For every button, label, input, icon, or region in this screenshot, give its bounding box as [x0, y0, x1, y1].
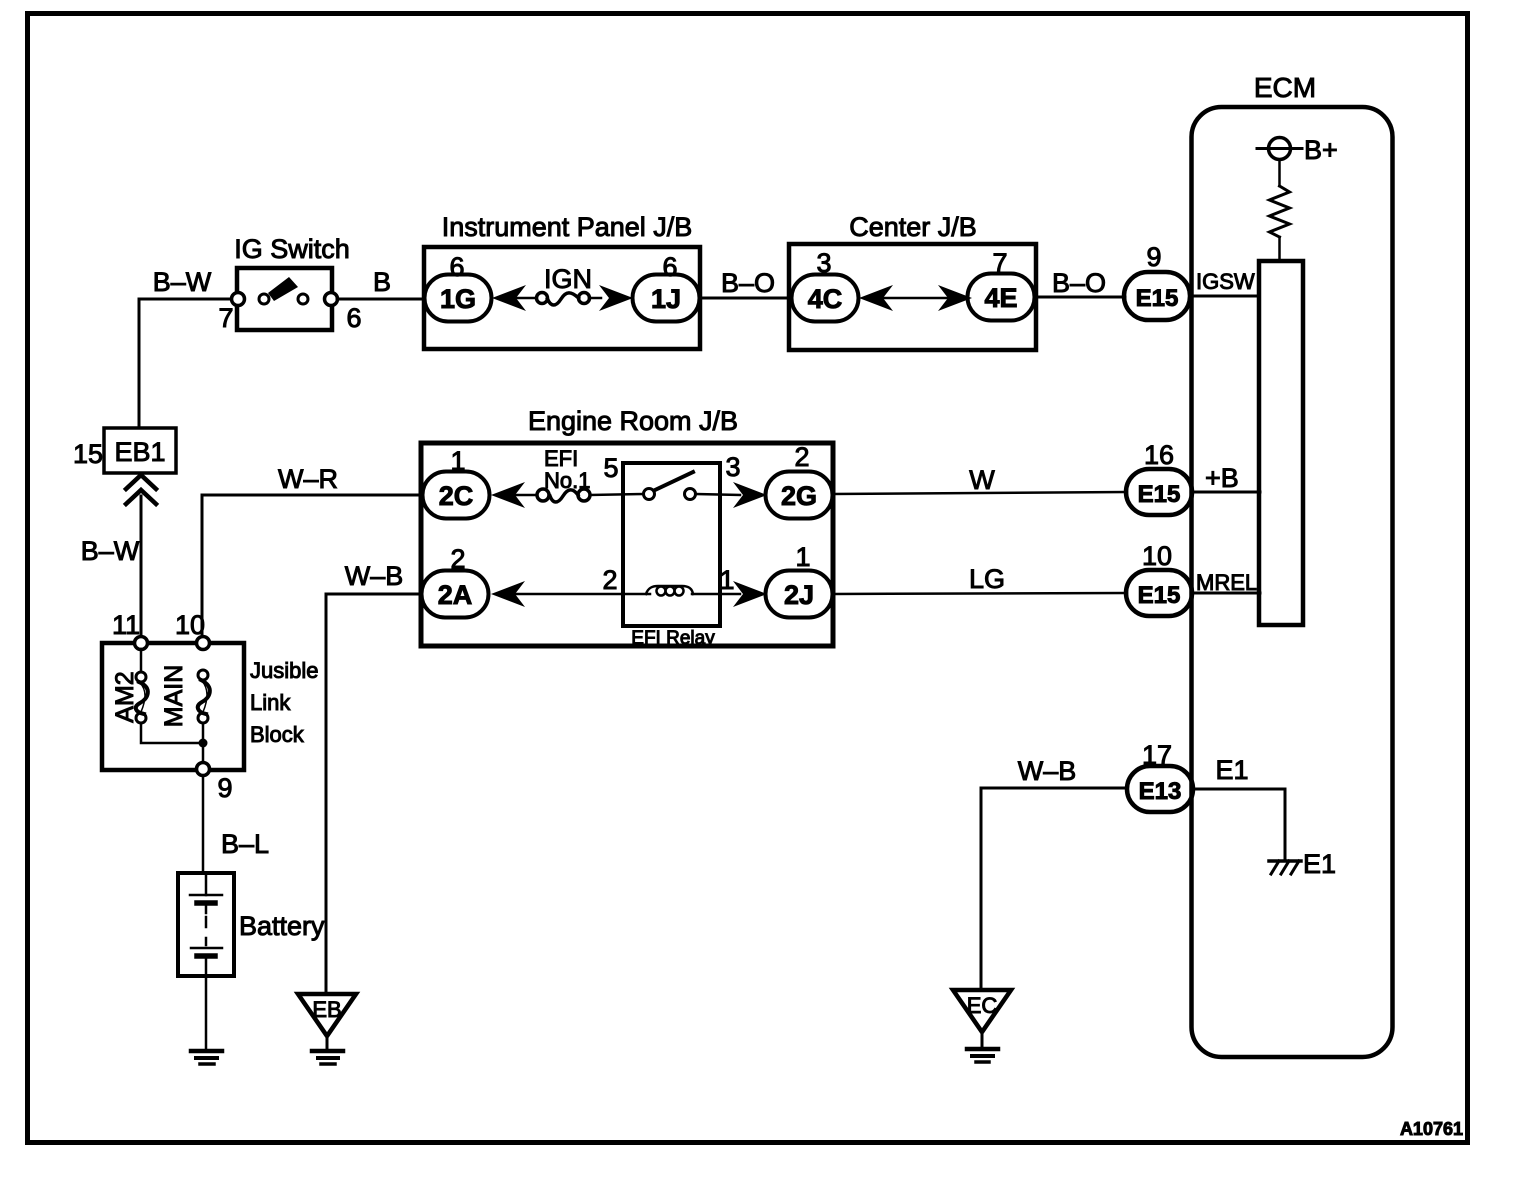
wire 2A to relay coil [515, 593, 650, 596]
svg-text:E15: E15 [1138, 582, 1181, 609]
net label LG [969, 564, 1005, 594]
net label B-W lower [81, 536, 140, 566]
net label W-B left [345, 561, 404, 591]
svg-text:2G: 2G [781, 481, 817, 511]
pin 10 label [175, 610, 205, 640]
svg-text:A10761: A10761 [1400, 1119, 1463, 1139]
pin 15 of EB1 [73, 439, 103, 469]
svg-text:10: 10 [1142, 541, 1172, 571]
svg-text:2: 2 [450, 544, 465, 574]
net label W [969, 465, 995, 495]
connector E15 pin 9 IGSW [1124, 272, 1190, 320]
svg-text:Jusible: Jusible [250, 658, 318, 683]
wire W-B from EC ground to E13 [981, 788, 1127, 990]
svg-text:1G: 1G [440, 284, 476, 314]
svg-text:B–W: B–W [81, 536, 140, 566]
resistor pull-up inside ECM [1270, 186, 1290, 237]
svg-text:AM2: AM2 [111, 671, 139, 722]
wire MAIN to terminal 9 [202, 723, 205, 763]
svg-text:B–L: B–L [221, 829, 269, 859]
relay EFI Relay box [623, 463, 720, 626]
wire resistor to internal bar [1278, 237, 1281, 261]
fuse EFI No.1 [537, 489, 590, 502]
net label W-R [278, 464, 338, 494]
net label B-W [153, 267, 212, 297]
svg-text:2: 2 [794, 442, 809, 472]
net label B [373, 267, 391, 297]
pin 3 of EFI relay [725, 452, 740, 482]
arrow into 2C [491, 482, 525, 508]
svg-text:E1: E1 [1215, 755, 1248, 785]
fuse IGN [537, 293, 590, 306]
wire B-W from Jusible Link Block pin 11 to EB1 [140, 496, 143, 637]
svg-text:3: 3 [725, 452, 740, 482]
label AM2 rotated [111, 671, 139, 722]
svg-text:W–B: W–B [1018, 756, 1077, 786]
terminal 10 [197, 637, 210, 650]
svg-text:Instrument Panel J/B: Instrument Panel J/B [442, 212, 693, 242]
pin 9 label [217, 773, 232, 803]
net label W-B right [1018, 756, 1077, 786]
wire 2C to fuse EFI No.1 [515, 494, 537, 497]
connector chevrons under EB1 [126, 475, 156, 504]
net label B-O second [1052, 268, 1106, 298]
pin 17 of E13 [1142, 740, 1172, 770]
net label B-O [721, 268, 775, 298]
svg-text:2J: 2J [784, 580, 814, 610]
node label E1 [1215, 755, 1248, 785]
fusible link AM2 [136, 672, 148, 723]
svg-text:Block: Block [250, 722, 305, 747]
switch IG Switch [232, 268, 338, 330]
svg-text:2A: 2A [438, 580, 473, 610]
pin 6 of 1J [662, 252, 677, 282]
svg-text:MAIN: MAIN [160, 665, 188, 728]
arrow into 1J [599, 285, 633, 311]
svg-text:W–B: W–B [345, 561, 404, 591]
svg-text:+B: +B [1205, 463, 1239, 493]
wire B-L from terminal 9 to battery [202, 776, 205, 873]
svg-text:Link: Link [250, 690, 291, 715]
pin 11 label [112, 610, 140, 640]
ECM module outline [1192, 107, 1393, 1057]
label ECM [1254, 72, 1316, 103]
power node B+ [1257, 138, 1302, 160]
wire fuse to relay contact [590, 494, 644, 495]
wire B-W from IG switch pin 7 to EB1 [139, 299, 238, 428]
svg-text:B: B [373, 267, 391, 297]
svg-text:7: 7 [218, 303, 233, 333]
svg-text:IG Switch: IG Switch [234, 234, 350, 264]
junction block Engine Room J/B [421, 443, 833, 646]
arrow into 2G [733, 482, 767, 508]
svg-text:2: 2 [602, 565, 617, 595]
connector EB1 [104, 428, 176, 473]
wire W from 2G to E15 +B [832, 492, 1127, 494]
svg-text:6: 6 [662, 252, 677, 282]
connector 1G [425, 275, 492, 322]
wire B from IG switch pin 6 to 1G [337, 298, 425, 301]
connector 1J [633, 275, 700, 322]
svg-text:E15: E15 [1138, 481, 1181, 508]
svg-text:W: W [969, 465, 995, 495]
svg-text:ECM: ECM [1254, 72, 1316, 103]
svg-text:7: 7 [992, 248, 1007, 278]
svg-text:2C: 2C [439, 481, 474, 511]
pin 6 of 1G [449, 252, 464, 282]
wire 4C to 4E [884, 297, 947, 300]
pin 1 of 2J [795, 542, 810, 572]
svg-text:B+: B+ [1304, 135, 1338, 165]
svg-text:9: 9 [217, 773, 232, 803]
wire LG from 2J to E15 MREL [833, 593, 1127, 594]
wire AM2 to junction [141, 723, 203, 743]
svg-text:1J: 1J [651, 284, 681, 314]
svg-text:5: 5 [603, 453, 618, 483]
svg-text:15: 15 [73, 439, 103, 469]
connector 4C [792, 275, 859, 322]
label EFI Relay [631, 628, 715, 649]
node label MREL [1196, 570, 1257, 595]
connector 2J [766, 571, 833, 618]
node label +B [1205, 463, 1239, 493]
svg-text:B–O: B–O [1052, 268, 1106, 298]
node label IGSW [1196, 269, 1255, 294]
value label IGN [544, 264, 592, 294]
svg-text:1: 1 [719, 565, 734, 595]
wire terminal 11 to fuse AM2 [140, 649, 143, 672]
chassis ground E1 [1269, 861, 1301, 874]
svg-text:MREL: MREL [1196, 570, 1257, 595]
Jusible Link Block box [102, 643, 244, 770]
svg-text:4E: 4E [984, 283, 1017, 313]
ground under battery [191, 1051, 222, 1064]
relay coil [646, 586, 693, 596]
pin 9 of E15 [1146, 242, 1161, 272]
wire 1G to fuse IGN [517, 297, 537, 300]
fusible link MAIN [198, 670, 210, 723]
wire MREL from E15 into ECM bar [1192, 592, 1260, 595]
pin 1 of 2C [450, 446, 465, 476]
svg-text:EFI Relay: EFI Relay [631, 628, 715, 649]
svg-text:6: 6 [449, 252, 464, 282]
pin 7 of IG switch [218, 303, 233, 333]
ground lines under EC [967, 1049, 998, 1062]
wire B-O from 4E to E15 [1036, 296, 1125, 299]
pin 5 of EFI relay [603, 453, 618, 483]
arrow into 2A [491, 581, 525, 607]
svg-text:3: 3 [816, 248, 831, 278]
connector 4E [968, 274, 1035, 321]
svg-text:9: 9 [1146, 242, 1161, 272]
ground triangle EC [953, 990, 1011, 1047]
label Jusible Link Block [250, 658, 318, 747]
pin 2 of 2G [794, 442, 809, 472]
connector 2G [766, 472, 833, 519]
svg-text:11: 11 [112, 610, 140, 640]
connector E15 pin 16 +B [1126, 469, 1192, 515]
svg-text:E15: E15 [1136, 285, 1179, 312]
pin 3 of 4C [816, 248, 831, 278]
wire +B from E15 into ECM bar [1192, 491, 1260, 494]
svg-text:IGSW: IGSW [1196, 269, 1255, 294]
svg-text:Battery: Battery [239, 911, 325, 941]
svg-text:6: 6 [346, 303, 361, 333]
junction dot [199, 739, 208, 748]
net label B-L [221, 829, 269, 859]
svg-text:1: 1 [450, 446, 465, 476]
svg-text:E1: E1 [1303, 849, 1336, 879]
svg-text:10: 10 [175, 610, 205, 640]
label Engine Room J/B [528, 406, 738, 436]
drawing number A10761 [1400, 1119, 1463, 1139]
wire B-O from 1J to 4C [700, 297, 790, 300]
label IG Switch [234, 234, 350, 264]
svg-text:Engine Room J/B: Engine Room J/B [528, 406, 738, 436]
junction block Center J/B [789, 244, 1036, 350]
terminal 11 [135, 637, 148, 650]
svg-text:W–R: W–R [278, 464, 338, 494]
value label EFI No.1 [544, 446, 590, 493]
wire E15 to ECM IGSW pin [1190, 295, 1260, 298]
ground lines under EB [312, 1051, 343, 1064]
pin 2 of 2A [450, 544, 465, 574]
svg-text:B–O: B–O [721, 268, 775, 298]
arrow into 4E [938, 285, 972, 311]
svg-text:4C: 4C [808, 284, 843, 314]
wire B+ to resistor [1278, 160, 1281, 187]
wire E1 from E13 to chassis ground [1193, 789, 1285, 860]
ECM internal bus bar [1259, 261, 1303, 625]
battery BAT [178, 873, 234, 976]
pin 6 of IG switch [346, 303, 361, 333]
junction block Instrument Panel J/B [424, 247, 700, 349]
label Battery [239, 911, 325, 941]
wire fuse IGN to 1J [589, 297, 601, 300]
wire relay coil to 2J [692, 593, 740, 596]
pin 16 of E15 [1144, 440, 1174, 470]
arrow into 4C [859, 285, 893, 311]
wire battery to ground [205, 976, 208, 1051]
pin 10 of E15 [1142, 541, 1172, 571]
pin 7 of 4E [992, 248, 1007, 278]
ground triangle EB [298, 994, 356, 1049]
arrow into 2J [733, 581, 767, 607]
label Center J/B [849, 212, 977, 242]
svg-text:1: 1 [795, 542, 810, 572]
relay contact switch [644, 472, 696, 500]
pin 1 of EFI relay [719, 565, 734, 595]
svg-text:LG: LG [969, 564, 1005, 594]
wire W-R from Jusible Link Block pin 10 to 2C [202, 495, 421, 643]
svg-text:17: 17 [1142, 740, 1172, 770]
svg-text:Center J/B: Center J/B [849, 212, 977, 242]
svg-text:IGN: IGN [544, 264, 592, 294]
svg-text:EB: EB [312, 997, 341, 1022]
svg-text:B–W: B–W [153, 267, 212, 297]
connector 2A [422, 571, 489, 618]
svg-text:EB1: EB1 [114, 437, 165, 467]
svg-text:E13: E13 [1139, 778, 1182, 805]
svg-text:16: 16 [1144, 440, 1174, 470]
label MAIN rotated [160, 665, 188, 728]
pin 2 of EFI relay [602, 565, 617, 595]
connector E15 pin 10 MREL [1126, 570, 1192, 616]
label B+ [1304, 135, 1338, 165]
label Instrument Panel J/B [442, 212, 693, 242]
svg-text:No.1: No.1 [544, 468, 590, 493]
wire relay contact to 2G [696, 494, 740, 495]
arrow into 1G [492, 285, 526, 311]
svg-text:EC: EC [967, 993, 998, 1018]
connector 2C [423, 472, 490, 519]
wire W-B from EB ground to 2A [326, 594, 421, 993]
ground name E1 [1303, 849, 1336, 879]
terminal 9 [197, 763, 210, 776]
connector E13 pin 17 E1 [1127, 766, 1193, 812]
